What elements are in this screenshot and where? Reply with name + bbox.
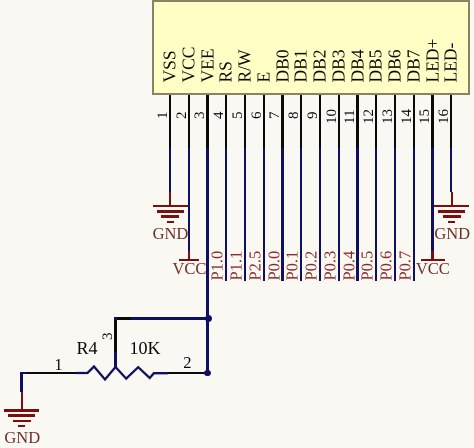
- pin number 2: [175, 111, 190, 119]
- wire net from pin 5: [244, 148, 246, 281]
- wire net from pin 15: [431, 148, 433, 251]
- pin number 3: [193, 111, 208, 119]
- resistor R4 body (zigzag): [70, 360, 175, 385]
- net label P0.3: [322, 251, 339, 281]
- wire: wiper to VEE net: [114, 317, 208, 320]
- wire net from pin 2: [188, 148, 190, 251]
- connector pin name RS: [218, 61, 236, 82]
- junction node wiper/VEE: [205, 315, 212, 322]
- pin 12 stub: [375, 95, 377, 148]
- pot pin number 1: [54, 357, 62, 374]
- junction node pin2/VEE: [204, 370, 211, 377]
- connector pin name LED+: [424, 38, 442, 82]
- net label P2.5: [247, 251, 264, 281]
- pin number 16: [437, 109, 452, 124]
- wire net from pin 14: [413, 148, 415, 281]
- wire net from pin 9: [319, 148, 321, 281]
- pin 13 stub: [394, 95, 396, 148]
- net label P1.0: [210, 251, 227, 281]
- pin number 12: [362, 109, 377, 124]
- connector pin name VEE: [199, 48, 217, 82]
- pin number 4: [212, 111, 227, 119]
- connector pin name DB6: [387, 49, 405, 82]
- pin number 6: [250, 111, 265, 119]
- connector pin name DB1: [293, 49, 311, 82]
- value 10K: [130, 339, 161, 357]
- ground symbol at pot pin 1: [21, 392, 23, 409]
- pin 1 stub: [169, 95, 171, 148]
- pin number 14: [400, 109, 415, 124]
- ground symbol at pin 16 (LED-): [451, 192, 453, 205]
- power port VCC at pin 15 (LED+): [431, 251, 433, 259]
- pin number 11: [343, 109, 358, 123]
- pin 16 stub: [450, 95, 452, 148]
- net label P0.7: [397, 251, 414, 281]
- wire net from pin 13: [394, 148, 396, 281]
- wire net from pin 3: [206, 148, 208, 373]
- pin 6 stub: [263, 95, 265, 148]
- net label P0.6: [379, 251, 396, 281]
- wire net from pin 12: [375, 148, 377, 281]
- pot wiper pin 3 stub: [114, 319, 116, 352]
- LCD connector header box: [152, 0, 470, 95]
- wire net from pin 7: [281, 148, 283, 281]
- designator R4: [77, 339, 98, 357]
- pin number 15: [418, 109, 433, 124]
- pin number 10: [325, 109, 340, 124]
- net label P0.2: [304, 251, 321, 281]
- power port VCC at pin 2: [188, 251, 190, 259]
- wire: pot pin1 to left corner: [20, 372, 26, 375]
- pin 15 stub: [431, 95, 433, 148]
- connector pin name VCC: [180, 46, 198, 82]
- pot pin number 3 (rotated): [101, 332, 116, 340]
- net label P0.1: [285, 251, 302, 281]
- pot pin 2 stub to junction: [168, 372, 206, 375]
- pot pin number 2: [183, 355, 191, 372]
- pin 14 stub: [413, 95, 415, 148]
- connector pin name VSS: [162, 50, 180, 82]
- wire net from pin 4: [225, 148, 227, 281]
- pin 3 stub: [206, 95, 208, 148]
- pin 9 stub: [319, 95, 321, 148]
- connector pin name LED-: [443, 42, 461, 82]
- pin number 5: [231, 111, 246, 119]
- net label P0.4: [341, 251, 358, 281]
- pin number 1: [156, 111, 171, 119]
- wire net from pin 8: [300, 148, 302, 281]
- connector pin name E: [255, 71, 273, 82]
- connector pin name DB3: [330, 49, 348, 82]
- ground symbol at pin 1 (VSS): [169, 192, 171, 205]
- net label P1.1: [229, 251, 246, 281]
- connector pin name R/W: [237, 49, 255, 82]
- wire net from pin 1: [169, 148, 171, 192]
- pin 8 stub: [300, 95, 302, 148]
- pin 11 stub: [356, 95, 358, 148]
- pin 7 stub: [281, 95, 283, 148]
- wire net from pin 10: [338, 148, 340, 281]
- connector pin name DB7: [405, 49, 423, 82]
- pin 5 stub: [244, 95, 246, 148]
- pin number 8: [287, 111, 302, 119]
- pin number 7: [268, 111, 283, 119]
- net label P0.5: [360, 251, 377, 281]
- net label P0.0: [266, 251, 283, 281]
- wire: left corner down to ground: [20, 372, 22, 393]
- pin 10 stub: [338, 95, 340, 148]
- wire net from pin 16: [450, 148, 452, 192]
- pin number 13: [381, 109, 396, 124]
- connector pin name DB5: [368, 49, 386, 82]
- connector pin name DB4: [349, 49, 367, 82]
- pin number 9: [306, 111, 321, 119]
- pin 2 stub: [188, 95, 190, 148]
- pin 4 stub: [225, 95, 227, 148]
- connector pin name DB2: [312, 49, 330, 82]
- connector pin name DB0: [274, 49, 292, 82]
- wire net from pin 11: [356, 148, 358, 281]
- wire net from pin 6: [263, 148, 265, 281]
